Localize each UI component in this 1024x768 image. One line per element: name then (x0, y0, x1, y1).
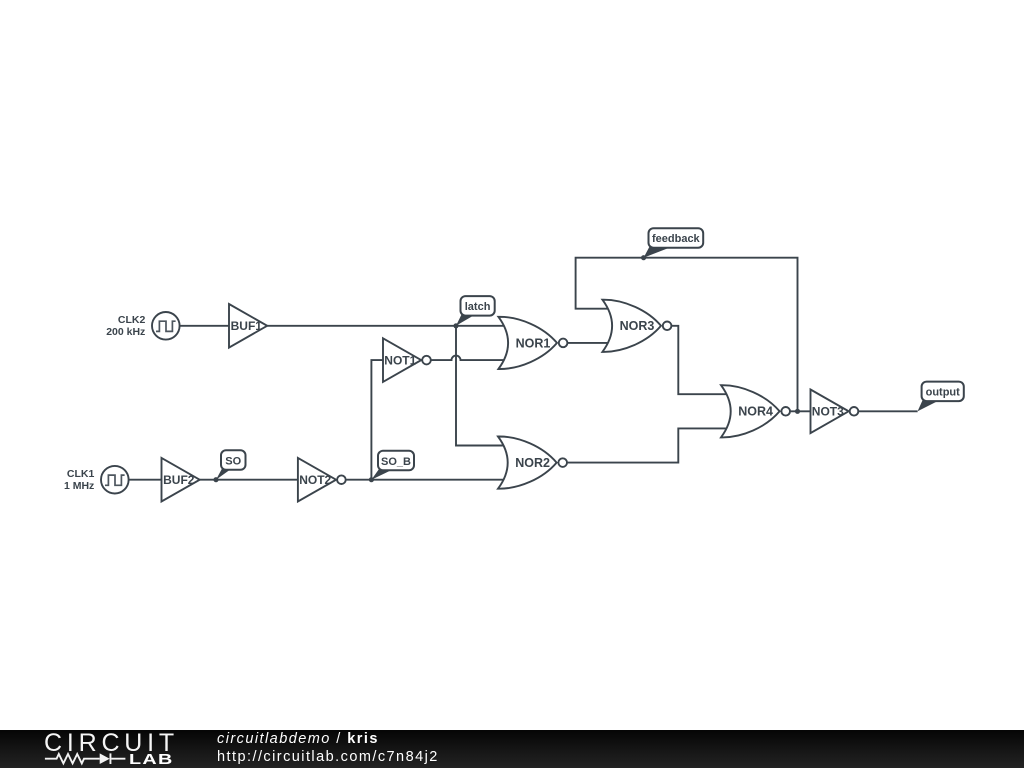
wire NOT2 output to NOR2 lower input (346, 479, 504, 481)
wire NOR1 output to NOR3 lower input (568, 342, 608, 344)
svg-text:200 kHz: 200 kHz (106, 326, 145, 338)
footer bar (0, 730, 1024, 768)
wire CLK1 to BUF2 (129, 479, 162, 481)
NOR gate NOR3 (602, 300, 671, 352)
svg-text:BUF1: BUF1 (231, 319, 263, 333)
NOR gate NOR2 (498, 436, 567, 488)
svg-text:BUF2: BUF2 (163, 473, 195, 487)
wire NOR4 output to NOT3 input (790, 410, 810, 412)
NOR gate NOR1 (498, 317, 567, 369)
CircuitLab logo word CIRCUIT (44, 729, 179, 758)
svg-text:latch: latch (465, 301, 491, 313)
svg-text:NOT2: NOT2 (299, 473, 331, 487)
wire NOR3 output down to NOR4 upper input (671, 326, 726, 394)
gate NOT3 (811, 390, 859, 434)
wire NOT1 output to NOR1 lower input with hop over vertical wire (431, 356, 504, 361)
svg-text:feedback: feedback (652, 233, 701, 245)
wire NOR2 output up to NOR4 lower input (567, 428, 726, 462)
CircuitLab logo word LAB (129, 751, 174, 768)
wire NOT3 output to output flag (858, 410, 918, 412)
NOR gate NOR4 (721, 385, 790, 437)
junction node at NOT3 input / feedback tap (795, 409, 800, 414)
gate BUF2 (162, 458, 200, 502)
gate NOT1 (383, 338, 431, 382)
wire latch node down to NOR2 upper input (456, 326, 504, 446)
svg-text:NOR2: NOR2 (515, 456, 550, 470)
net label flag "latch" (453, 296, 494, 328)
svg-text:1 MHz: 1 MHz (64, 480, 94, 492)
svg-text:NOR3: NOR3 (620, 319, 655, 333)
svg-text:NOT1: NOT1 (384, 353, 416, 367)
net label flag "SO" (213, 450, 245, 482)
svg-text:CLK2: CLK2 (118, 314, 146, 326)
clock source V1 (CLK1 1 MHz) (64, 466, 129, 494)
net label flag "feedback" (641, 228, 703, 260)
wire SO_B node up to NOT1 input (371, 360, 383, 480)
svg-text:SO: SO (225, 455, 241, 467)
net label flag "output" (918, 382, 964, 412)
net label flag "SO_B" (369, 451, 414, 483)
gate NOT2 (298, 458, 346, 502)
svg-text:NOR1: NOR1 (516, 336, 551, 350)
gate BUF1 (229, 304, 267, 348)
feedback wire NOT3 input node up and around to NOR3 upper input (576, 258, 798, 412)
svg-text:NOT3: NOT3 (812, 405, 844, 419)
logo resistor + diode symbol (0, 730, 130, 768)
svg-text:output: output (926, 387, 961, 399)
svg-text:NOR4: NOR4 (738, 405, 773, 419)
share byline (217, 730, 737, 766)
svg-text:SO_B: SO_B (381, 456, 411, 468)
svg-text:CLK1: CLK1 (67, 468, 95, 480)
wire BUF2 output to NOT2 input (200, 479, 298, 481)
clock source V2 (CLK2 200 kHz) (106, 312, 179, 340)
wire BUF1 output to NOR1 upper input (267, 325, 504, 327)
wire CLK2 to BUF1 (180, 325, 229, 327)
